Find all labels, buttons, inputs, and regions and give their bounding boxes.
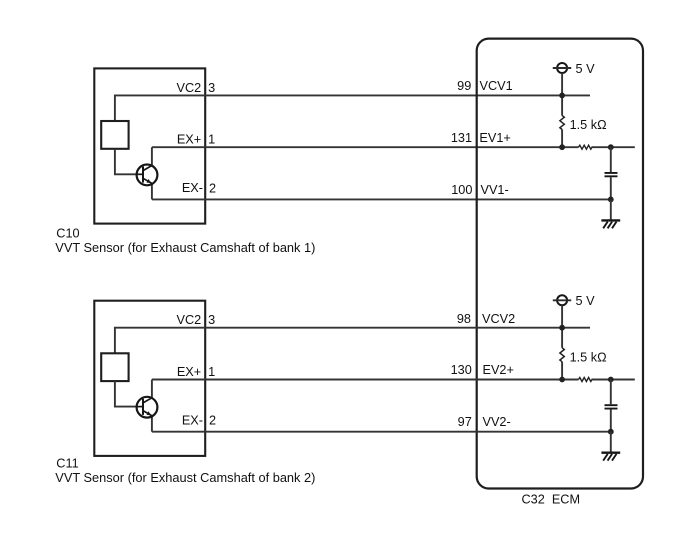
svg-text:1: 1 <box>208 133 215 147</box>
junction EV1+/capacitor (bank1) <box>608 144 614 150</box>
svg-text:C32 ECM: C32 ECM <box>522 492 581 506</box>
svg-text:VCV1: VCV1 <box>480 79 513 93</box>
wire to ground (bank2) <box>610 432 612 453</box>
wire EX-/VV2- (pin 2 to pin 97) <box>152 431 611 433</box>
series resistor on EV2+ (bank2) <box>579 378 593 382</box>
svg-text:EX+: EX+ <box>177 133 201 147</box>
svg-text:131: 131 <box>451 131 472 145</box>
svg-text:VV1-: VV1- <box>481 183 509 197</box>
ECM box C32 <box>477 39 643 489</box>
sensor element square C10 <box>101 121 128 149</box>
wire VC2/VCV1 (pin 3 to pin 99) <box>115 95 590 121</box>
junction VV2-/ground (bank2) <box>608 429 614 435</box>
wire capacitor top (bank1) <box>610 147 612 172</box>
wire square to transistor base (C11) <box>115 381 143 407</box>
wire EX+/EV2+ (pin 1 to pin 130) <box>152 379 635 381</box>
svg-text:98: 98 <box>457 312 471 326</box>
wire capacitor top (bank2) <box>610 380 612 405</box>
5V supply symbol (bank1) <box>553 63 571 73</box>
wire capacitor bottom (bank1) <box>610 177 612 199</box>
svg-text:99: 99 <box>457 79 471 93</box>
junction EV1+/resistor (bank1) <box>559 144 565 150</box>
wire to ground (bank1) <box>610 199 612 220</box>
svg-text:130: 130 <box>451 363 472 377</box>
wire collector-emitter vertical (C10) <box>151 147 153 199</box>
sensor C11 box <box>94 301 205 456</box>
svg-text:C10: C10 <box>56 227 79 241</box>
svg-text:EX-: EX- <box>182 181 203 195</box>
wire 5V to EV1+ node (bank1) <box>561 73 563 147</box>
wire VC2/VCV2 (pin 3 to pin 98) <box>115 328 590 354</box>
5V supply symbol (bank2) <box>553 295 571 305</box>
transistor Q (C10) <box>137 165 158 186</box>
sensor element square C11 <box>101 353 128 381</box>
svg-text:3: 3 <box>208 313 215 327</box>
svg-text:VVT Sensor (for Exhaust Camsha: VVT Sensor (for Exhaust Camshaft of bank… <box>55 240 315 255</box>
wire collector-emitter vertical (C11) <box>151 380 153 432</box>
junction EV2+/resistor (bank2) <box>559 377 565 383</box>
svg-text:97: 97 <box>458 415 472 429</box>
svg-text:VVT Sensor (for Exhaust Camsha: VVT Sensor (for Exhaust Camshaft of bank… <box>55 470 315 485</box>
series resistor on EV1+ (bank1) <box>579 145 593 149</box>
junction EV2+/capacitor (bank2) <box>608 377 614 383</box>
junction VCV1/5V (bank1) <box>559 93 565 99</box>
svg-text:1.5 kΩ: 1.5 kΩ <box>570 350 607 364</box>
wire capacitor bottom (bank2) <box>610 410 612 432</box>
wire EX-/VV1- (pin 2 to pin 100) <box>152 198 611 200</box>
junction VV1-/ground (bank1) <box>608 197 614 203</box>
resistor 1.5 kOhm (bank1) <box>560 116 564 130</box>
svg-text:VC2: VC2 <box>177 313 202 327</box>
ground (bank1) <box>601 220 620 228</box>
svg-text:EV2+: EV2+ <box>483 363 514 377</box>
sensor C10 box <box>94 68 205 223</box>
svg-text:VV2-: VV2- <box>483 415 511 429</box>
svg-text:1.5 kΩ: 1.5 kΩ <box>570 118 607 132</box>
capacitor C (bank2) <box>605 405 618 408</box>
capacitor C (bank1) <box>605 173 618 176</box>
svg-text:5 V: 5 V <box>576 294 596 308</box>
svg-text:2: 2 <box>209 181 216 195</box>
svg-text:1: 1 <box>208 365 215 379</box>
svg-text:EV1+: EV1+ <box>479 131 510 145</box>
svg-text:VCV2: VCV2 <box>482 312 515 326</box>
svg-text:100: 100 <box>451 183 472 197</box>
wire square to transistor base (C10) <box>115 149 143 175</box>
junction VCV2/5V (bank2) <box>559 325 565 331</box>
svg-text:EX-: EX- <box>182 414 203 428</box>
ground (bank2) <box>601 453 620 461</box>
svg-text:5 V: 5 V <box>576 62 596 76</box>
svg-text:2: 2 <box>209 414 216 428</box>
wire EX+/EV1+ (pin 1 to pin 131) <box>152 146 635 148</box>
resistor 1.5 kOhm (bank2) <box>560 348 564 362</box>
svg-text:EX+: EX+ <box>177 365 201 379</box>
wire 5V to EV2+ node (bank2) <box>561 305 563 379</box>
svg-text:3: 3 <box>208 81 215 95</box>
svg-text:C11: C11 <box>56 457 78 471</box>
transistor Q (C11) <box>137 397 158 418</box>
svg-text:VC2: VC2 <box>177 81 202 95</box>
